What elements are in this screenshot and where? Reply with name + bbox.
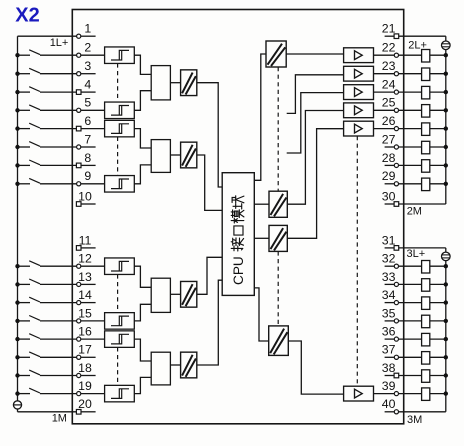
- svg-text:22: 22: [382, 41, 396, 55]
- svg-text:2M: 2M: [407, 205, 422, 217]
- svg-text:27: 27: [382, 132, 396, 146]
- svg-text:6: 6: [84, 114, 91, 128]
- svg-text:17: 17: [78, 343, 92, 357]
- svg-text:33: 33: [382, 270, 396, 284]
- svg-text:24: 24: [382, 78, 396, 92]
- svg-text:9: 9: [84, 169, 91, 183]
- svg-text:11: 11: [79, 233, 92, 247]
- svg-text:34: 34: [382, 288, 396, 302]
- svg-text:1: 1: [84, 22, 91, 36]
- svg-text:10: 10: [78, 189, 92, 203]
- svg-text:4: 4: [84, 78, 91, 92]
- svg-text:2: 2: [84, 41, 91, 55]
- svg-text:25: 25: [382, 96, 396, 110]
- svg-text:13: 13: [78, 270, 92, 284]
- svg-text:18: 18: [78, 361, 92, 375]
- svg-text:39: 39: [382, 379, 396, 393]
- svg-text:30: 30: [382, 189, 396, 203]
- svg-text:21: 21: [382, 22, 396, 36]
- svg-text:3L+: 3L+: [407, 248, 426, 260]
- svg-text:37: 37: [382, 343, 396, 357]
- svg-text:CPU: CPU: [231, 256, 246, 285]
- svg-text:19: 19: [78, 379, 92, 393]
- svg-text:1M: 1M: [52, 413, 67, 425]
- svg-text:16: 16: [78, 325, 92, 339]
- svg-text:38: 38: [382, 361, 396, 375]
- svg-text:3: 3: [84, 59, 91, 73]
- svg-text:36: 36: [382, 325, 396, 339]
- svg-text:3M: 3M: [407, 414, 422, 426]
- svg-text:20: 20: [78, 397, 92, 411]
- svg-text:12: 12: [78, 252, 92, 266]
- svg-text:26: 26: [382, 114, 396, 128]
- svg-text:23: 23: [382, 59, 396, 73]
- svg-text:31: 31: [382, 233, 396, 247]
- svg-text:8: 8: [84, 151, 91, 165]
- svg-text:5: 5: [84, 96, 91, 110]
- svg-text:15: 15: [78, 306, 92, 320]
- svg-text:29: 29: [382, 169, 396, 183]
- svg-text:40: 40: [382, 397, 396, 411]
- svg-text:2L+: 2L+: [408, 39, 427, 51]
- svg-text:28: 28: [382, 151, 396, 165]
- svg-text:7: 7: [84, 132, 91, 146]
- svg-text:35: 35: [382, 306, 396, 320]
- svg-text:14: 14: [78, 288, 92, 302]
- svg-text:32: 32: [382, 252, 396, 266]
- svg-text:1L+: 1L+: [50, 37, 69, 49]
- svg-text:X2: X2: [15, 4, 39, 26]
